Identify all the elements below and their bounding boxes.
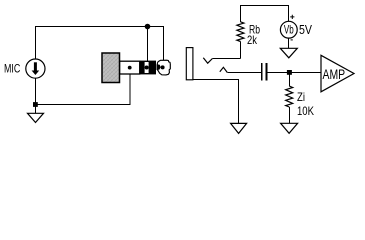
resistor Rb bbox=[237, 22, 244, 42]
node junction at Zi bbox=[287, 70, 292, 75]
svg-text:10K: 10K bbox=[297, 104, 314, 118]
plug sleeve bbox=[120, 61, 140, 74]
jack socket bushing bbox=[186, 48, 193, 80]
svg-text:2k: 2k bbox=[247, 33, 258, 47]
ground under MIC bbox=[28, 105, 44, 123]
wire jack sleeve line to ground bbox=[193, 80, 239, 124]
wire from MIC bottom to ground junction bbox=[35, 78, 37, 104]
wire junction to Zi bbox=[288, 73, 290, 87]
wire bottom rail to plug sleeve bbox=[36, 68, 131, 105]
ground under Vb bbox=[280, 48, 297, 58]
plug body (gray handle) bbox=[102, 53, 120, 83]
plug ring bands (black) with ring window bbox=[140, 61, 156, 75]
wire top rail from MIC to plug tip bbox=[36, 27, 164, 67]
resistor Zi bbox=[286, 86, 293, 107]
wire ring drop from junction to plug ring bbox=[147, 27, 149, 68]
plug tip bbox=[157, 60, 171, 75]
wire Rb bottom lead bbox=[240, 42, 242, 59]
capacitor plates bbox=[262, 63, 267, 80]
svg-text:AMP: AMP bbox=[323, 66, 346, 82]
wire capacitor to AMP bbox=[267, 72, 321, 74]
svg-text:Vb: Vb bbox=[284, 23, 294, 37]
source Vb circle bbox=[280, 21, 297, 38]
microphone MIC current source bbox=[26, 59, 45, 78]
svg-text:5V: 5V bbox=[299, 22, 312, 37]
ground under Zi bbox=[281, 123, 298, 133]
node junction at MIC bottom bbox=[33, 102, 38, 107]
jack ring spring contact bbox=[220, 67, 228, 72]
node sleeve contact dot bbox=[128, 66, 132, 70]
wire ring spring to capacitor bbox=[227, 72, 261, 74]
node ring contact dot bbox=[145, 66, 149, 70]
node junction on top rail bbox=[145, 24, 151, 30]
svg-text:MIC: MIC bbox=[4, 62, 21, 76]
minus sign at Vb bbox=[291, 39, 293, 41]
wire Zi bottom to ground bbox=[288, 107, 290, 123]
wire Rb top to Vb bbox=[241, 6, 289, 22]
wire tip spring to Rb bbox=[212, 58, 240, 60]
op-amp AMP bbox=[321, 55, 354, 92]
jack tip spring contact bbox=[203, 58, 212, 64]
svg-text:Zi: Zi bbox=[297, 90, 305, 104]
plus sign at Vb bbox=[290, 15, 294, 19]
ground under jack bbox=[231, 123, 247, 133]
wire Vb bottom to ground bbox=[288, 38, 290, 48]
